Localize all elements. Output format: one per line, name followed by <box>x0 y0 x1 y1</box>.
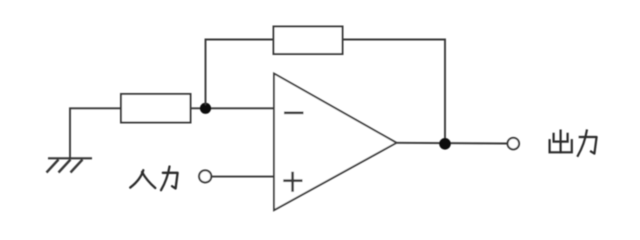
wire output <box>397 142 507 145</box>
label input 入力 <box>130 167 177 191</box>
wire R1 to op-amp inverting input <box>191 107 275 109</box>
kanji 力 (input) <box>163 173 178 189</box>
wire feedback left <box>206 40 274 106</box>
terminal (input) <box>199 170 211 182</box>
kanji 力 (output) <box>580 137 597 154</box>
node A (inverting input junction) <box>200 103 211 114</box>
node B (output junction) <box>439 138 451 150</box>
label output 出力 <box>550 131 597 156</box>
wire ground to R1 <box>70 108 121 158</box>
terminal (output) <box>508 138 520 150</box>
ground <box>47 158 93 172</box>
wire input terminal to non-inverting input <box>212 176 275 178</box>
kanji 出 <box>559 131 561 153</box>
wire feedback right <box>343 40 446 141</box>
kanji 入 <box>130 170 143 187</box>
op-amp U1 <box>274 74 397 211</box>
resistor R2 (feedback) <box>274 27 343 55</box>
non-inverting input marker (plus) <box>283 172 302 192</box>
resistor R1 <box>121 94 191 123</box>
inverting input marker (minus) <box>284 112 304 115</box>
